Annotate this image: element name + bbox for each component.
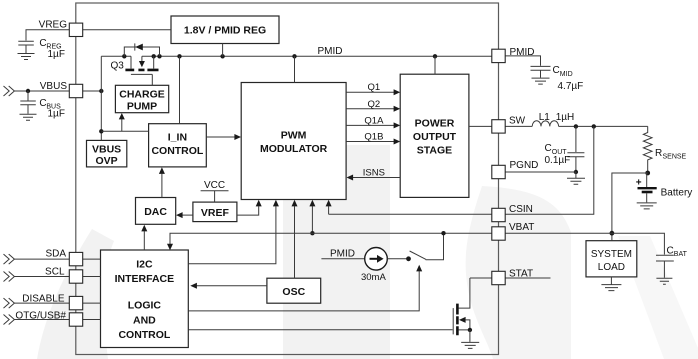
DAC block	[136, 198, 176, 225]
wire OVP junction to I_IN	[101, 130, 148, 132]
pin VBUS	[40, 81, 83, 98]
ground COUT	[567, 172, 585, 184]
pin VBAT	[492, 222, 535, 240]
node switch contact	[406, 256, 411, 261]
node FET right	[152, 54, 156, 58]
node PGND/COUT junction	[574, 170, 578, 174]
node diode right	[157, 54, 161, 58]
svg-text:Q1: Q1	[368, 82, 381, 93]
svg-text:VBUS: VBUS	[40, 81, 68, 92]
wire I2C to PWM arrow2	[188, 200, 279, 264]
pin CSIN	[492, 204, 533, 222]
wire I_IN to PWM arrow	[206, 134, 241, 140]
wire Q2	[346, 99, 400, 112]
wire VREF to DAC arrow	[176, 212, 193, 218]
pin SCL	[45, 267, 83, 283]
ground SYSTEM LOAD	[601, 277, 621, 291]
svg-text:L1: L1	[539, 112, 551, 123]
wire STAT internal	[470, 277, 492, 279]
pin VREG	[39, 20, 83, 37]
svg-text:CONTROL: CONTROL	[151, 145, 203, 157]
svg-text:CHARGE: CHARGE	[119, 89, 165, 101]
input chevron VBUS	[4, 86, 15, 96]
VBUS OVP block	[87, 140, 127, 167]
pin SDA	[45, 249, 82, 266]
svg-text:PMID: PMID	[510, 47, 535, 58]
svg-text:VREF: VREF	[201, 207, 230, 219]
svg-text:SENSE: SENSE	[663, 154, 687, 161]
OSC block	[267, 278, 321, 303]
node VBAT/system junction	[610, 231, 615, 236]
battery BT1	[636, 173, 692, 209]
svg-text:AND: AND	[133, 315, 156, 327]
wire OSC to PWM arrow3	[292, 200, 298, 278]
wire OTG/USB#	[4, 315, 101, 325]
wire SCL	[4, 272, 101, 282]
wire SW pin to L1	[505, 125, 532, 127]
charge pump block	[115, 85, 168, 112]
svg-text:PMID: PMID	[330, 249, 355, 260]
wire to current source	[321, 258, 364, 260]
wire VBUS riser to rail and OVP	[100, 56, 102, 140]
wire arrow into charge pump	[119, 113, 125, 131]
wire STAT external	[505, 277, 550, 279]
node POS tap	[433, 54, 437, 58]
svg-text:OTG/USB#: OTG/USB#	[15, 311, 66, 322]
VCC supply label	[201, 180, 229, 202]
inductor L1 1uH	[532, 112, 574, 126]
svg-text:Q1A: Q1A	[364, 115, 384, 126]
svg-text:INTERFACE: INTERFACE	[115, 273, 175, 285]
wire I2C to DAC arrow	[141, 225, 147, 250]
node CSIN tap	[592, 124, 596, 128]
wire ISNS	[347, 168, 401, 181]
node PWM tap	[292, 54, 296, 58]
svg-text:4.7µF: 4.7µF	[558, 81, 584, 92]
node I_IN tap	[177, 54, 181, 58]
node VBUS riser junction	[99, 89, 103, 93]
capacitor CBUS	[20, 91, 65, 120]
svg-text:R: R	[655, 148, 662, 159]
wire rail to I_IN top	[179, 56, 181, 123]
watermark blob	[466, 186, 571, 359]
wire VREG pin to REG block	[83, 29, 171, 31]
wire PMID rail	[101, 55, 492, 57]
node diode left	[122, 54, 126, 58]
wire REG block stub	[222, 44, 224, 57]
regulator block 1.8V/PMID REG	[171, 16, 279, 44]
svg-text:LOGIC: LOGIC	[128, 300, 162, 312]
svg-text:1.8V / PMID REG: 1.8V / PMID REG	[184, 25, 266, 37]
node VBUS-CBUS junction	[26, 89, 30, 93]
wire CSIN to PWM arrow5	[326, 200, 332, 215]
svg-text:SCL: SCL	[45, 267, 65, 278]
svg-text:DISABLE: DISABLE	[22, 293, 65, 304]
transistor Q3 PMOS	[111, 56, 159, 85]
VREF block	[193, 202, 237, 222]
svg-text:POWER: POWER	[415, 118, 455, 130]
wire Q1B	[346, 132, 400, 145]
I2C INTERFACE / LOGIC AND CONTROL block	[101, 250, 189, 348]
wire VBAT external	[505, 233, 664, 254]
diode D-Q3 body	[124, 43, 159, 56]
node OVP/I_IN junction	[99, 129, 103, 133]
wire SDA	[4, 254, 101, 264]
POWER OUTPUT STAGE block	[400, 74, 469, 197]
svg-text:SDA: SDA	[45, 249, 66, 260]
node switch/VBAT junction	[441, 231, 445, 235]
svg-text:Q3: Q3	[111, 61, 125, 72]
svg-text:SW: SW	[509, 116, 526, 127]
svg-text:PGND: PGND	[510, 160, 539, 171]
svg-text:VBAT: VBAT	[509, 222, 534, 233]
svg-text:OVP: OVP	[96, 155, 118, 167]
wire POS top stub	[434, 56, 436, 74]
svg-text:ISNS: ISNS	[363, 168, 385, 179]
watermark diagonal	[618, 236, 698, 359]
svg-text:VBUS: VBUS	[92, 144, 121, 156]
pin DISABLE	[22, 293, 82, 310]
resistor RSENSE	[643, 126, 686, 173]
current source I1 30mA	[361, 247, 387, 283]
wire POS to SW pin	[469, 125, 492, 127]
watermark band	[283, 145, 390, 359]
transistor Q4 NMOS	[453, 278, 472, 342]
wire DISABLE	[4, 298, 101, 308]
wire switch to VBAT line	[426, 233, 444, 260]
switch S1	[410, 251, 426, 259]
svg-text:Q1B: Q1B	[364, 132, 383, 143]
wire current source to switch	[387, 258, 408, 260]
capacitor COUT	[545, 126, 585, 172]
svg-text:CSIN: CSIN	[509, 204, 533, 215]
svg-text:VCC: VCC	[204, 180, 225, 191]
SYSTEM LOAD block	[586, 241, 637, 277]
svg-text:C: C	[667, 246, 674, 257]
svg-text:DAC: DAC	[144, 206, 167, 218]
pin PMID	[492, 47, 535, 63]
svg-text:LOAD: LOAD	[598, 262, 625, 273]
wire OSC to I2C arrow	[190, 283, 267, 289]
wire PGND pin to COUT	[505, 171, 576, 173]
svg-text:+: +	[636, 178, 642, 189]
svg-text:I_IN: I_IN	[168, 132, 187, 144]
svg-text:OSC: OSC	[282, 286, 305, 298]
wire LOGIC to switch control	[188, 265, 422, 311]
ground Q4	[461, 342, 479, 348]
svg-text:CONTROL: CONTROL	[118, 329, 170, 341]
svg-text:PUMP: PUMP	[127, 101, 157, 113]
wire Q1	[346, 82, 400, 95]
svg-text:I2C: I2C	[136, 259, 153, 271]
svg-text:OUTPUT: OUTPUT	[413, 131, 457, 143]
PWM MODULATOR block U-PWM	[241, 83, 346, 200]
wire DAC to I_IN arrow	[159, 167, 165, 197]
svg-text:1µF: 1µF	[48, 49, 65, 60]
svg-text:PMID: PMID	[318, 46, 343, 57]
capacitor CBAT	[656, 246, 688, 285]
watermark wedge	[37, 229, 114, 359]
svg-text:MID: MID	[560, 71, 573, 78]
svg-text:1µF: 1µF	[48, 109, 65, 120]
node battery/RSENSE junction	[645, 171, 650, 176]
svg-text:0.1µF: 0.1µF	[545, 155, 571, 166]
wire PMID pin to CMID	[505, 56, 540, 66]
svg-text:1µH: 1µH	[556, 112, 575, 123]
node REG tap	[220, 54, 224, 58]
I_IN CONTROL block	[149, 124, 207, 167]
wire VREF to PWM bottom arrow1	[237, 200, 262, 215]
wire Q1A	[346, 115, 400, 128]
wire RSENSE node left	[612, 173, 648, 241]
svg-text:PWM: PWM	[281, 130, 307, 142]
svg-text:VREG: VREG	[39, 20, 68, 31]
svg-text:Q2: Q2	[368, 99, 381, 110]
wire L1 to RSENSE	[559, 125, 648, 127]
svg-text:STAGE: STAGE	[417, 145, 452, 157]
svg-text:C: C	[553, 65, 560, 76]
svg-text:Battery: Battery	[661, 188, 693, 199]
wire VREG pin to CREG	[26, 30, 69, 41]
svg-text:C: C	[545, 143, 552, 154]
wire VBUS	[14, 90, 101, 92]
wire VBAT to PWM arrow4	[309, 200, 315, 236]
wire CSIN sense drop	[505, 126, 594, 214]
pin STAT	[492, 269, 533, 285]
wire CSIN internal	[329, 213, 492, 215]
svg-text:SYSTEM: SYSTEM	[591, 249, 632, 260]
capacitor CMID	[531, 65, 584, 92]
pin SW	[492, 116, 526, 134]
wire VBAT internal	[167, 233, 492, 250]
node COUT tap	[574, 124, 578, 128]
wire LOGIC to Q4 gate	[188, 329, 452, 331]
svg-text:BAT: BAT	[674, 251, 688, 258]
chip outline	[76, 3, 499, 355]
pin OTG/USB#	[15, 311, 82, 326]
capacitor CREG	[18, 38, 65, 60]
pin PGND	[492, 160, 539, 179]
svg-text:MODULATOR: MODULATOR	[260, 143, 328, 155]
wire PWM top stub	[294, 56, 296, 82]
svg-text:30mA: 30mA	[361, 272, 386, 283]
svg-text:STAT: STAT	[509, 269, 533, 280]
